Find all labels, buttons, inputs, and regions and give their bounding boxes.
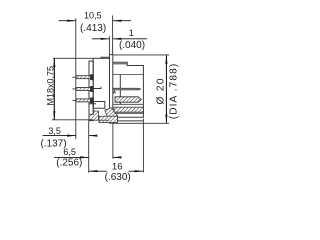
svg-text:M18x0,75: M18x0,75 xyxy=(46,66,56,106)
svg-text:1: 1 xyxy=(129,28,134,38)
svg-text:(.256): (.256) xyxy=(56,158,82,169)
svg-text:3,5: 3,5 xyxy=(48,126,61,136)
svg-text:(.413): (.413) xyxy=(80,23,106,34)
svg-text:16: 16 xyxy=(112,162,123,173)
svg-text:Ø 20: Ø 20 xyxy=(156,78,167,104)
svg-text:(.040): (.040) xyxy=(119,40,145,51)
svg-text:10,5: 10,5 xyxy=(84,10,102,20)
svg-text:(.137): (.137) xyxy=(40,138,66,149)
svg-text:(.630): (.630) xyxy=(105,172,131,183)
svg-text:(DIA .788): (DIA .788) xyxy=(168,64,179,120)
